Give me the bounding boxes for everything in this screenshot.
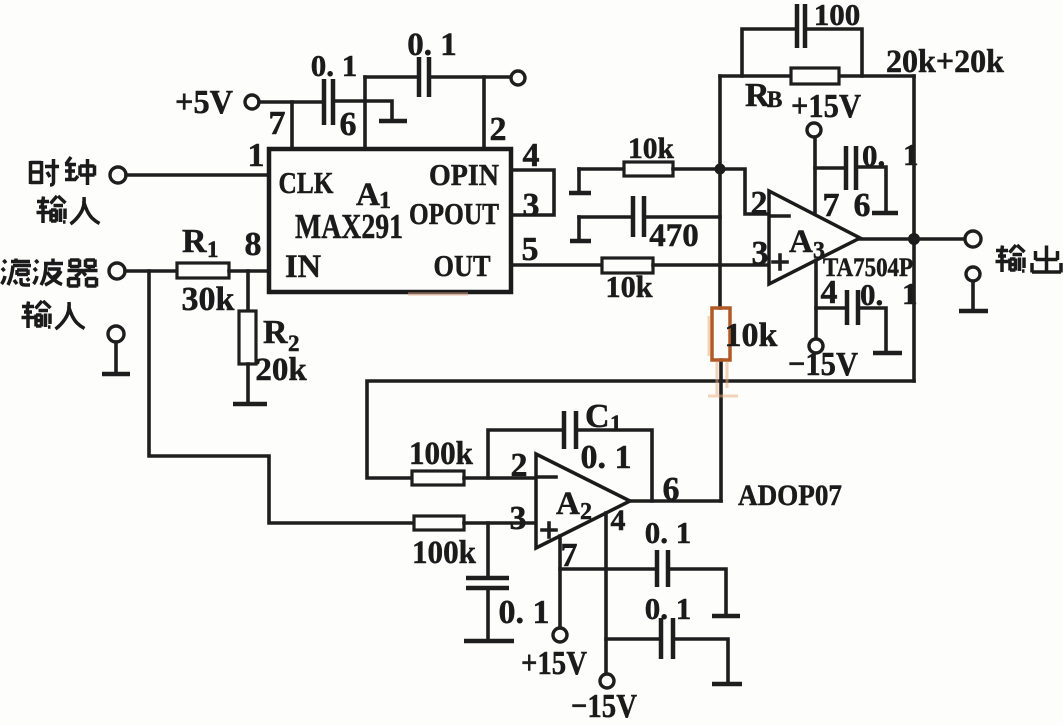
svg-text:3: 3 xyxy=(523,187,540,224)
wire A2 pin 7 to +15V xyxy=(558,536,562,628)
wire pin 5 OUT to 10k xyxy=(511,263,602,267)
svg-text:1: 1 xyxy=(610,411,622,436)
capacitor 0.1 (A3 -15V) xyxy=(847,290,858,325)
svg-text:ADOP07: ADOP07 xyxy=(738,479,842,512)
svg-text:7: 7 xyxy=(269,105,286,142)
wire A2 out up to 10k xyxy=(719,360,723,501)
ground bar xyxy=(464,639,514,644)
svg-text:OPOUT: OPOUT xyxy=(409,196,499,231)
wire output gnd xyxy=(971,282,975,309)
wire pin 2 stub xyxy=(482,77,486,149)
wire gnd terminal xyxy=(114,342,118,372)
svg-text:100k: 100k xyxy=(412,535,477,571)
wire cap to ground xyxy=(486,588,490,638)
wire A3 pin7 to +15V xyxy=(813,137,817,213)
ground bar xyxy=(872,211,898,216)
svg-text:0. 1: 0. 1 xyxy=(581,439,632,476)
svg-text:100k: 100k xyxy=(409,436,474,472)
svg-text:2: 2 xyxy=(580,499,592,525)
wire 100 cap loop xyxy=(742,29,862,76)
minus input mark xyxy=(539,475,556,479)
svg-text:R: R xyxy=(182,223,207,260)
capacitor 0.1 (pin7-pin6) xyxy=(324,79,333,125)
wire 0.1 cap below pin3 xyxy=(486,523,490,576)
capacitor 0.1 (A2 +15V) xyxy=(657,550,668,587)
svg-text:0. 1: 0. 1 xyxy=(645,591,692,626)
plus input mark xyxy=(542,523,556,537)
svg-text:3: 3 xyxy=(752,235,769,272)
svg-text:4: 4 xyxy=(821,274,838,311)
terminal -15V A2 xyxy=(600,674,614,688)
op-amp U1 MAX291 body xyxy=(269,149,511,292)
wire +15V decoupling row xyxy=(560,567,655,571)
terminal output xyxy=(965,231,981,247)
svg-text:IN: IN xyxy=(285,249,321,285)
ground bar xyxy=(569,191,591,196)
wire R1 to pin 8 xyxy=(229,269,269,273)
wire to 10k xyxy=(579,167,624,171)
wire R2 to ground xyxy=(246,364,250,402)
output junction dot xyxy=(908,233,920,245)
svg-text:R: R xyxy=(263,314,288,351)
svg-text:CLK: CLK xyxy=(279,165,334,200)
resistor RB xyxy=(791,68,839,84)
ground bar xyxy=(712,682,742,687)
wire filter branch down to A2 xyxy=(149,271,414,523)
wire C1 loop xyxy=(488,430,652,501)
svg-text:A: A xyxy=(789,224,813,260)
ground bar input xyxy=(102,372,130,377)
highlight marks orange xyxy=(708,316,738,396)
capacitor 100 xyxy=(797,4,805,48)
wire pin 4 to pin 3 loop xyxy=(511,170,554,215)
svg-text:20k: 20k xyxy=(255,352,307,388)
svg-text:+15V: +15V xyxy=(791,88,861,125)
ground stub (470 row) xyxy=(577,217,581,239)
resistor 100k (A2 pin3) xyxy=(414,516,464,530)
resistor 10k (OUT row) xyxy=(602,258,653,273)
svg-text:30k: 30k xyxy=(182,281,235,318)
label output (Chinese) xyxy=(996,245,1062,273)
svg-text:10k: 10k xyxy=(628,132,674,165)
svg-text:20k+20k: 20k+20k xyxy=(886,44,1005,80)
terminal filter input xyxy=(109,263,125,279)
svg-text:−15V: −15V xyxy=(571,688,637,725)
wire top rail to terminal xyxy=(365,75,511,79)
wire A2 output xyxy=(630,499,721,503)
node junction dot xyxy=(715,164,726,175)
resistor 10k (servo, orange) xyxy=(712,308,730,360)
svg-text:0. 1: 0. 1 xyxy=(499,594,550,631)
wire cap to ground xyxy=(860,308,886,350)
svg-text:4: 4 xyxy=(611,504,626,537)
resistor R2 xyxy=(239,311,256,364)
label clock input (Chinese) xyxy=(31,157,100,224)
op-amp A3 triangle xyxy=(769,191,860,284)
resistor 100k (A2 pin2) xyxy=(412,471,464,485)
terminal +5V xyxy=(245,95,259,109)
wire pin 7 stub xyxy=(290,102,294,149)
wire 10k to node xyxy=(673,167,720,171)
svg-text:1: 1 xyxy=(207,237,219,262)
svg-text:B: B xyxy=(767,87,782,112)
svg-text:2: 2 xyxy=(511,447,528,484)
ground bar xyxy=(379,119,407,124)
svg-text:OPIN: OPIN xyxy=(429,157,499,192)
svg-text:10k: 10k xyxy=(725,317,778,354)
svg-text:+5V: +5V xyxy=(175,84,233,121)
wire A3 output xyxy=(860,237,965,241)
terminal -15V xyxy=(809,339,823,353)
wire A3 pin4 to -15V xyxy=(814,260,818,339)
svg-text:−15V: −15V xyxy=(788,346,858,383)
svg-text:470: 470 xyxy=(649,218,699,254)
wire 100k to A2 pin 2 xyxy=(464,476,536,480)
ground bar xyxy=(873,351,902,356)
svg-text:100: 100 xyxy=(814,0,861,32)
svg-text:1: 1 xyxy=(248,137,265,174)
resistor 10k (to A3 pin2 node) xyxy=(624,162,673,176)
terminal +15V A2 xyxy=(553,628,567,642)
terminal output ground xyxy=(966,267,980,281)
svg-text:7: 7 xyxy=(823,187,840,224)
svg-text:8: 8 xyxy=(245,226,262,263)
wire -15V decoupling row xyxy=(606,637,659,641)
capacitor C1 xyxy=(564,411,576,449)
wire cap to ground step xyxy=(335,101,392,119)
wire RB row xyxy=(720,74,914,78)
wire cap to ground xyxy=(858,167,886,210)
svg-text:0. 1: 0. 1 xyxy=(407,27,457,63)
wire cap to ground xyxy=(675,639,728,681)
wire cap to ground xyxy=(670,569,726,614)
capacitor 0.1 (A2 -15V) xyxy=(661,618,673,659)
svg-text:10k: 10k xyxy=(606,269,654,304)
capacitor 0.1 (A3 +15V) xyxy=(846,146,856,190)
wire 100k to A2 pin 3 xyxy=(464,521,536,525)
svg-text:+15V: +15V xyxy=(521,645,587,682)
wire servo rail xyxy=(367,381,914,478)
svg-text:MAX291: MAX291 xyxy=(295,207,403,246)
svg-text:2: 2 xyxy=(490,111,507,148)
wire to 0.1 cap xyxy=(816,306,845,310)
wire R2 branch xyxy=(246,271,250,311)
wire node vertical xyxy=(718,76,722,308)
svg-text:0. 1: 0. 1 xyxy=(311,48,358,83)
wire node to A3 pin 2 xyxy=(720,169,769,214)
ground bar xyxy=(712,614,740,619)
svg-text:1: 1 xyxy=(903,137,919,172)
svg-text:A: A xyxy=(556,486,580,522)
wire 10k to A3 pin3 xyxy=(653,263,769,267)
wire to 0.1 cap xyxy=(815,166,844,170)
ground bar xyxy=(570,239,591,244)
wire 470 to node line xyxy=(646,215,720,219)
svg-text:5: 5 xyxy=(522,231,539,268)
capacitor 0.1 (top) xyxy=(419,57,429,97)
terminal +15V xyxy=(807,123,821,137)
resistor R1 xyxy=(177,263,229,278)
terminal top right xyxy=(511,71,525,85)
svg-text:6: 6 xyxy=(340,106,357,143)
wire to cap 470 xyxy=(579,215,631,219)
terminal input ground xyxy=(108,326,124,342)
wire feedback right vertical xyxy=(912,76,916,381)
capacitor 0.1 (pin3 to gnd) xyxy=(466,578,509,588)
svg-text:4: 4 xyxy=(523,137,540,174)
wire clock to pin 1 xyxy=(126,173,269,177)
svg-text:3: 3 xyxy=(510,500,527,537)
label filter input (Chinese) xyxy=(2,259,98,330)
capacitor 470 xyxy=(633,196,644,237)
ground bar output xyxy=(959,309,988,314)
ground stub (10k row) xyxy=(577,169,581,191)
op-amp A2 triangle xyxy=(536,454,630,548)
svg-text:0. 1: 0. 1 xyxy=(645,515,692,550)
wire pin 6 stub xyxy=(363,77,367,149)
wire A2 pin 4 to -15V xyxy=(604,513,608,674)
minus input mark xyxy=(772,214,789,218)
ground bar R2 xyxy=(233,402,267,407)
terminal clock input xyxy=(110,167,126,183)
svg-text:6: 6 xyxy=(854,187,871,224)
plus input mark xyxy=(773,255,787,269)
svg-text:2: 2 xyxy=(751,185,768,222)
wire +5V to pin7 and C cap xyxy=(259,100,322,104)
scan artifact orange smear xyxy=(408,292,468,296)
wire filter input to R1 xyxy=(125,269,177,273)
svg-text:C: C xyxy=(585,398,610,435)
svg-text:OUT: OUT xyxy=(434,248,491,283)
